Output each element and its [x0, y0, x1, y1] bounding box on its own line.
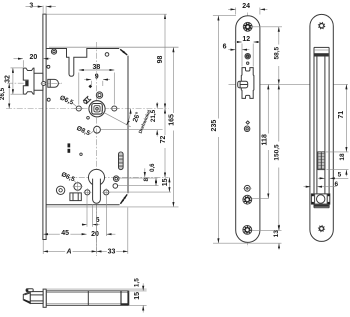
hatched spring [318, 152, 325, 170]
inner slot lines [316, 57, 318, 194]
svg-text:6: 6 [223, 43, 227, 50]
follower hub [89, 101, 105, 117]
dim 72 [164, 109, 166, 178]
latch bevel wedge [23, 292, 30, 304]
svg-text:9: 9 [95, 73, 99, 80]
svg-text:150,5: 150,5 [273, 144, 280, 161]
faceplate outline [236, 16, 260, 243]
top screw torx [319, 23, 325, 29]
bottom screw torx [243, 226, 252, 235]
svg-text:21,5: 21,5 [150, 109, 157, 122]
screw top-left [51, 49, 56, 54]
latch centerline [7, 82, 62, 84]
dim 13 [252, 229, 282, 231]
rotation ray 28deg [97, 109, 131, 127]
latch tail pin [42, 82, 46, 86]
svg-text:98: 98 [157, 56, 164, 64]
dim 235 [213, 15, 236, 17]
svg-text:20: 20 [30, 54, 38, 61]
hatch slot front view [119, 152, 124, 170]
dark double tick left [68, 143, 71, 147]
small dot below-left of follower [87, 117, 90, 120]
svg-text:26,5: 26,5 [0, 87, 6, 100]
lock case box behind plate [313, 47, 315, 207]
rotated capsule (spring detent) [83, 96, 91, 104]
svg-text:5: 5 [338, 172, 342, 179]
latch body [30, 292, 43, 304]
angle arc [126, 109, 130, 125]
ring circle lower-left [56, 186, 64, 194]
latch head in window [238, 81, 248, 88]
svg-text:15: 15 [162, 178, 169, 186]
svg-text:1,5: 1,5 [134, 278, 141, 287]
roller latch [311, 194, 329, 204]
faceplate rivet lower [47, 98, 50, 101]
bottom screw torx [319, 226, 325, 232]
latch nub [26, 289, 33, 292]
hole left dia 6.5 [76, 106, 81, 111]
latch centerline horizontal shared [229, 83, 349, 85]
svg-text:33: 33 [108, 249, 116, 256]
follower horizontal centerline [6, 108, 169, 110]
small hole top-right [105, 53, 109, 57]
dim 150,5 [278, 84, 280, 230]
svg-text:12: 12 [242, 36, 250, 43]
svg-text:45: 45 [61, 230, 69, 237]
body [46, 291, 129, 305]
svg-text:58,5: 58,5 [274, 46, 281, 59]
extension line below case bottom [44, 206, 179, 208]
ring circle above follower [96, 92, 102, 98]
dim 165 [172, 47, 174, 207]
svg-text:15: 15 [134, 292, 141, 300]
dim 58,5 [252, 26, 282, 28]
dim 33 [127, 208, 129, 254]
svg-text:18: 18 [339, 153, 346, 161]
tiny hole [247, 62, 249, 64]
hole right dia 6.5 [112, 106, 117, 111]
chamfer top-right with arrows [120, 49, 127, 55]
lock case outline [46, 49, 119, 77]
svg-text:24: 24 [242, 3, 250, 10]
svg-text:5: 5 [96, 217, 100, 224]
top screw torx [243, 22, 252, 31]
chamfer bottom-right with arrows [120, 194, 127, 203]
svg-text:71: 71 [338, 111, 345, 119]
svg-text:A: A [65, 249, 71, 256]
svg-text:13: 13 [273, 230, 280, 238]
svg-text:3: 3 [29, 2, 33, 9]
dim 118 [267, 84, 269, 198]
svg-text:165: 165 [168, 114, 175, 126]
ring circle right of cylinder [113, 176, 119, 182]
centerline vertical [247, 13, 249, 248]
double rect lower-left [70, 193, 81, 201]
tiny ornament [246, 121, 249, 124]
svg-text:0,6: 0,6 [150, 163, 156, 172]
flank hole left M5 [85, 190, 90, 195]
svg-text:235: 235 [211, 120, 218, 132]
faceplate rivet upper [47, 65, 50, 68]
svg-text:32: 32 [5, 75, 12, 83]
dim A [96, 206, 98, 254]
small dot [80, 153, 82, 155]
cross circle lower [244, 185, 250, 191]
extension line case top level [49, 46, 179, 48]
cross circle lower-left [74, 183, 82, 191]
euro profile cylinder [88, 169, 104, 185]
dark band below roller [314, 205, 329, 207]
faceplate outline right view [310, 14, 333, 241]
hole dia 8.5 [94, 126, 101, 133]
dim 45 [42, 240, 44, 254]
flank hole right M5 [104, 190, 109, 195]
latch bolt front view [23, 68, 43, 94]
diamond dot left of follower [88, 85, 92, 89]
svg-text:72: 72 [160, 136, 167, 144]
middle screw torx [243, 195, 252, 204]
small double circle [244, 126, 250, 132]
centerline [321, 36, 323, 222]
svg-text:118: 118 [261, 134, 268, 145]
faceplate bar [43, 289, 46, 307]
cylinder centerline [68, 176, 169, 178]
faceplate ext lines above [42, 6, 44, 15]
faceplate front view [43, 14, 46, 239]
follower vertical centerline [96, 42, 98, 256]
small circle below it [113, 184, 118, 189]
dim 21.5 [156, 102, 158, 108]
extension line top (faceplate top level) [46, 13, 167, 15]
svg-text:20: 20 [91, 231, 99, 238]
latch window [241, 68, 254, 99]
countersunk screw [245, 54, 250, 59]
